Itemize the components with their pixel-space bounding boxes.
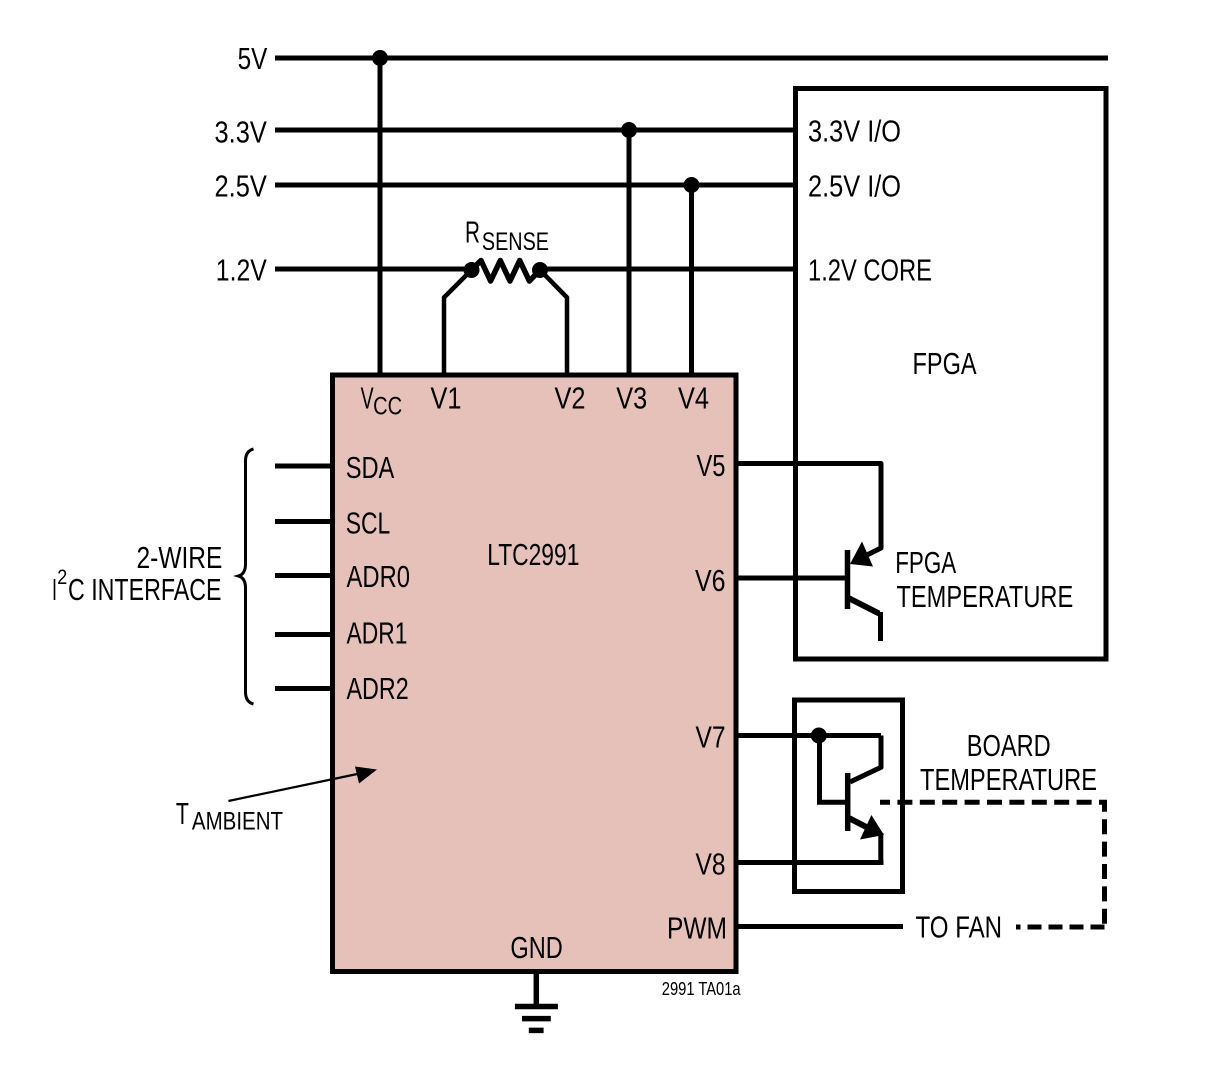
wire V2 sense lead: [540, 270, 567, 375]
svg-text:ADR1: ADR1: [347, 616, 408, 651]
svg-text:2.5V: 2.5V: [215, 169, 268, 204]
wire V1 sense lead: [444, 270, 472, 375]
svg-text:T: T: [176, 796, 189, 831]
svg-text:TEMPERATURE: TEMPERATURE: [920, 762, 1097, 797]
wire dashed fan control bottom: [1016, 925, 1105, 930]
svg-text:3.3V: 3.3V: [215, 114, 268, 149]
svg-text:V8: V8: [696, 847, 726, 882]
svg-text:V1: V1: [431, 381, 462, 416]
chip LTC2991 body: [333, 375, 737, 972]
svg-text:SDA: SDA: [346, 450, 395, 485]
resistor RSENSE: [472, 261, 541, 282]
wire SDA stub: [275, 464, 330, 469]
board temperature box: [795, 700, 903, 892]
node 2.5V junction: [684, 177, 700, 193]
svg-text:2-WIRE: 2-WIRE: [137, 540, 223, 575]
transistor Q1 FPGA sensor: [848, 542, 881, 642]
pin VCC label: [361, 381, 403, 421]
svg-text:1.2V: 1.2V: [216, 253, 267, 288]
svg-text:FPGA: FPGA: [895, 545, 956, 580]
wire 1.2V rail right: [543, 267, 795, 272]
wire 3.3V rail: [275, 128, 795, 133]
wire V8: [736, 860, 884, 865]
wire V5: [736, 464, 881, 557]
wire V6: [736, 576, 845, 581]
node RSENSE right: [532, 262, 548, 278]
wire ADR0 stub: [275, 573, 330, 578]
wire V3 vertical: [627, 130, 632, 375]
wire 2.5V rail: [275, 183, 795, 188]
svg-text:I: I: [52, 572, 57, 607]
svg-text:V: V: [361, 381, 374, 416]
arrow TAMBIENT pointer: [228, 767, 377, 802]
svg-text:TEMPERATURE: TEMPERATURE: [897, 579, 1074, 614]
svg-text:C INTERFACE: C INTERFACE: [68, 572, 222, 607]
svg-text:5V: 5V: [238, 41, 268, 76]
wire Q2 base lead: [820, 736, 846, 803]
svg-text:ADR2: ADR2: [347, 671, 409, 706]
node 5V junction: [372, 50, 388, 66]
label 2-WIRE I2C INTERFACE: [52, 540, 222, 607]
wire 5V rail: [275, 56, 1108, 61]
transistor Q2 board sensor: [848, 773, 884, 863]
svg-text:V4: V4: [678, 381, 709, 416]
svg-text:CC: CC: [373, 393, 402, 421]
svg-text:R: R: [465, 215, 480, 250]
wire V7: [736, 733, 881, 738]
svg-text:V5: V5: [697, 448, 726, 483]
svg-text:ADR0: ADR0: [347, 559, 411, 594]
svg-text:2991 TA01a: 2991 TA01a: [662, 979, 742, 999]
svg-text:V7: V7: [696, 720, 726, 755]
label BOARD TEMPERATURE: [920, 728, 1097, 797]
svg-text:LTC2991: LTC2991: [487, 537, 579, 572]
svg-text:SENSE: SENSE: [482, 228, 549, 256]
node V7 junction: [811, 728, 827, 744]
wire Q2 collector lead: [850, 736, 881, 783]
svg-text:2: 2: [57, 566, 67, 589]
svg-text:V2: V2: [555, 381, 586, 416]
brace I2C interface: [239, 449, 254, 704]
label RSENSE: [465, 215, 549, 256]
wire SCL stub: [275, 519, 330, 524]
svg-text:SCL: SCL: [346, 505, 391, 540]
svg-text:FPGA: FPGA: [913, 346, 977, 381]
wire 1.2V rail left: [275, 267, 468, 272]
FPGA box: [796, 89, 1107, 660]
svg-text:AMBIENT: AMBIENT: [192, 808, 283, 836]
svg-text:1.2V CORE: 1.2V CORE: [808, 253, 932, 288]
svg-text:TO FAN: TO FAN: [916, 910, 1003, 945]
svg-text:2.5V I/O: 2.5V I/O: [808, 169, 901, 204]
wire VCC vertical: [378, 58, 383, 375]
label FPGA TEMPERATURE: [895, 545, 1073, 614]
svg-text:V6: V6: [695, 563, 726, 598]
wire dashed fan control: [880, 802, 1105, 929]
svg-text:V3: V3: [616, 381, 647, 416]
svg-text:PWM: PWM: [667, 911, 727, 946]
ground: [515, 971, 558, 1030]
wire ADR2 stub: [275, 686, 330, 691]
wire V4 vertical: [689, 185, 694, 375]
svg-text:BOARD: BOARD: [967, 728, 1051, 763]
svg-text:3.3V I/O: 3.3V I/O: [808, 114, 901, 149]
node 3.3V junction: [621, 122, 637, 138]
node RSENSE left: [464, 262, 480, 278]
label TAMBIENT: [176, 796, 283, 836]
wire ADR1 stub: [275, 632, 330, 637]
wire PWM: [736, 924, 903, 929]
svg-text:GND: GND: [510, 930, 562, 965]
